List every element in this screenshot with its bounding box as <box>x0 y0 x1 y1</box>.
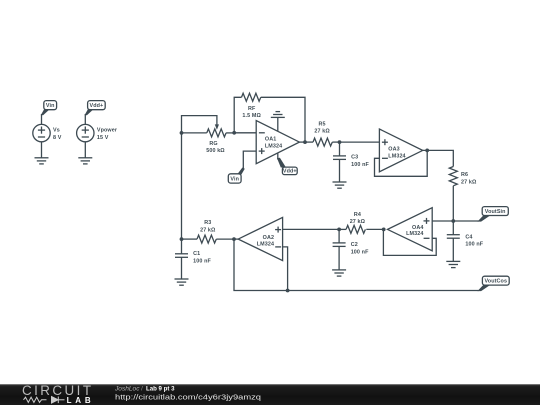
svg-text:R4: R4 <box>354 212 361 218</box>
svg-text:100 nF: 100 nF <box>193 258 211 264</box>
capacitor C3 100 nF <box>333 142 369 182</box>
svg-text:C3: C3 <box>351 155 358 161</box>
svg-text:R5: R5 <box>319 121 326 127</box>
voltage source Vs 8 V <box>33 124 62 141</box>
wire (OA1 V- pin stub) <box>277 117 279 131</box>
resistor R6 27 kOhm <box>449 167 477 186</box>
wire (vertical bus from RG node down to R3 node) <box>181 133 183 239</box>
svg-text:27 kΩ: 27 kΩ <box>314 129 330 135</box>
svg-text:LAB: LAB <box>67 396 91 405</box>
capacitor C4 100 nF <box>447 221 484 261</box>
node (OA4 output) <box>382 228 386 232</box>
node (OA2 - / VoutCos junction) <box>286 289 290 293</box>
ground (under C3) <box>333 182 347 188</box>
node (RG left / bus junction) <box>180 131 184 135</box>
wire <box>84 142 86 158</box>
wire (OA1 non-inverting input) <box>243 151 256 168</box>
node (OA3 output) <box>425 149 429 153</box>
node (C2 top) <box>337 228 341 232</box>
wire (R6 to VoutSin node) <box>452 186 454 221</box>
CircuitLab logo: resistor-diode glyph <box>24 397 65 404</box>
ground <box>78 158 92 164</box>
svg-text:100 nF: 100 nF <box>465 242 483 248</box>
svg-text:JoshLoc: JoshLoc <box>114 385 140 392</box>
node (OA2 output node) <box>232 237 236 241</box>
svg-text:OA1: OA1 <box>265 137 276 143</box>
svg-text:Vin: Vin <box>46 103 55 109</box>
svg-text:C1: C1 <box>193 251 200 257</box>
svg-text:/: / <box>141 385 143 392</box>
wire (RF to OA1 output) <box>261 97 305 142</box>
op-amp OA1 LM324 <box>256 121 299 164</box>
potentiometer RG 500 kOhm <box>182 116 235 155</box>
ground (under C1) <box>175 279 189 285</box>
node (VoutSin node) <box>451 219 455 223</box>
svg-text:RF: RF <box>248 106 256 112</box>
svg-text:OA3: OA3 <box>388 147 399 153</box>
node (C3 top) <box>338 140 342 144</box>
svg-text:15 V: 15 V <box>97 135 109 141</box>
svg-text:100 nF: 100 nF <box>351 162 369 168</box>
wire (up to RF) <box>234 97 241 133</box>
wire (OA4 + input to VoutSin node) <box>432 220 453 222</box>
capacitor C1 100 nF <box>175 239 211 279</box>
svg-text:8 V: 8 V <box>53 135 62 141</box>
wire (VoutCos run) <box>234 239 479 290</box>
svg-text:R3: R3 <box>204 220 211 226</box>
ground <box>35 158 49 164</box>
ground (under C2) <box>332 270 346 276</box>
resistor R4 27 kOhm <box>339 212 384 234</box>
svg-text:LM324: LM324 <box>257 242 274 248</box>
ground (inverted, above OA1) <box>271 112 285 118</box>
resistor RF 1.5 MOhm <box>242 93 262 119</box>
svg-text:R6: R6 <box>461 172 468 178</box>
svg-text:1.5 MΩ: 1.5 MΩ <box>242 113 261 119</box>
op-amp OA2 LM324 (mirrored) <box>238 217 282 260</box>
svg-text:Vin: Vin <box>230 176 239 182</box>
svg-text:Vdd+: Vdd+ <box>89 103 103 109</box>
svg-text:Vs: Vs <box>53 128 60 134</box>
resistor R3 27 kOhm <box>182 220 235 243</box>
net flag VoutSin <box>477 207 508 222</box>
wire (to OA3 + input) <box>340 141 380 143</box>
net flag Vin (OA1 + input) <box>228 168 245 184</box>
ground (under C4) <box>446 261 460 267</box>
svg-text:100 nF: 100 nF <box>351 249 369 255</box>
svg-text:LM324: LM324 <box>388 153 405 159</box>
svg-text:27 kΩ: 27 kΩ <box>350 219 366 225</box>
svg-text:RG: RG <box>209 141 217 147</box>
svg-text:27 kΩ: 27 kΩ <box>200 227 216 233</box>
wire <box>41 142 43 158</box>
wire (node to flag) <box>453 220 479 222</box>
svg-text:C2: C2 <box>351 242 358 248</box>
svg-text:VoutSin: VoutSin <box>485 209 506 215</box>
voltage source Vpower 15 V <box>77 124 118 141</box>
svg-text:LM324: LM324 <box>406 231 423 237</box>
wire (OA2 + input to C2 node) <box>283 228 340 230</box>
svg-text:OA2: OA2 <box>263 235 274 241</box>
svg-text:LM324: LM324 <box>265 143 282 149</box>
wire (OA2 - input down to VoutCos wire) <box>283 247 288 291</box>
svg-text:Vpower: Vpower <box>97 128 118 134</box>
wire <box>41 114 43 125</box>
wire (OA3 feedback loop) <box>375 150 428 176</box>
net flag Vin (on source Vs) <box>41 101 57 116</box>
capacitor C2 100 nF <box>333 229 369 270</box>
svg-text:http://circuitlab.com/c4y6r3jy: http://circuitlab.com/c4y6r3jy9amzq <box>115 393 261 402</box>
svg-text:Lab 9 pt 3: Lab 9 pt 3 <box>146 385 175 392</box>
wire <box>84 114 86 125</box>
node (R3 / C1 node) <box>180 237 184 241</box>
net flag Vdd+ (OA1 V+ pin) <box>277 153 297 175</box>
svg-text:C4: C4 <box>465 234 472 240</box>
net flag VoutCos <box>477 276 509 291</box>
svg-text:500 kΩ: 500 kΩ <box>206 148 225 154</box>
op-amp OA4 LM324 (mirrored) <box>388 208 433 251</box>
svg-text:27 kΩ: 27 kΩ <box>461 179 477 185</box>
wire (inverting input) <box>234 132 256 134</box>
wire (OA4 feedback loop) <box>383 229 436 255</box>
op-amp OA3 LM324 <box>379 129 422 172</box>
net flag Vdd+ (on source Vpower) <box>85 101 106 116</box>
svg-text:Vdd+: Vdd+ <box>283 169 297 175</box>
wire (OA2 output to node) <box>234 238 238 240</box>
node (OA1 inverting input junction) <box>232 131 236 135</box>
node (OA1 output) <box>303 140 307 144</box>
resistor R5 27 kOhm <box>299 121 339 146</box>
wire (OA3 output to R6) <box>423 150 454 166</box>
svg-text:VoutCos: VoutCos <box>484 279 507 285</box>
